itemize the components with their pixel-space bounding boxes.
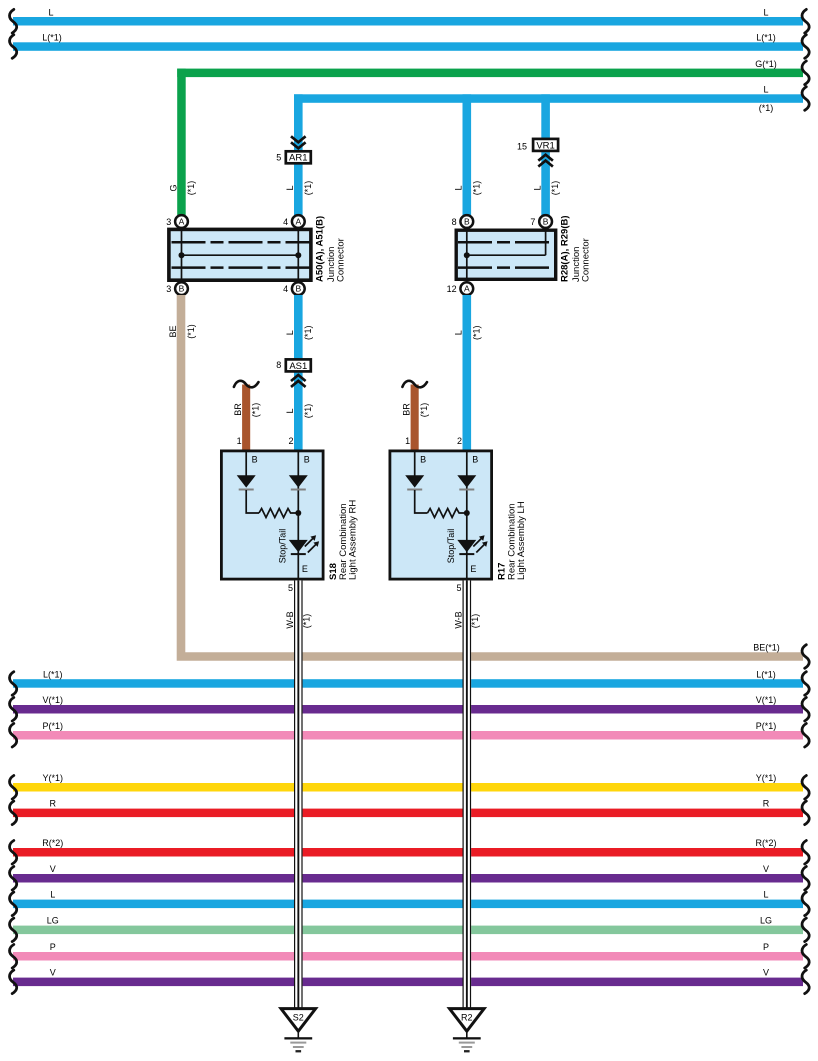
- svg-text:(*1): (*1): [303, 326, 313, 341]
- wire L (top bus): [10, 9, 810, 33]
- label B at pin 2 R17: [472, 454, 478, 464]
- label P(*1) left: [43, 721, 64, 731]
- junction dot R17: [464, 510, 470, 516]
- wire beige BE from A50 terminal B to right edge: [181, 295, 803, 657]
- name Connector (R28): [580, 238, 591, 282]
- svg-text:B: B: [472, 454, 478, 464]
- squiggle at BE right end: [802, 645, 809, 669]
- label (*1) below A50: [303, 326, 313, 341]
- label B at pin 1 R17: [420, 454, 426, 464]
- rear combination light body S18: [221, 451, 323, 579]
- label E S18: [302, 564, 308, 574]
- terminal A top-left of A50: [175, 215, 188, 228]
- svg-text:Stop/Tail: Stop/Tail: [278, 529, 288, 564]
- svg-text:Y(*1): Y(*1): [756, 773, 777, 783]
- label L left: [50, 890, 55, 900]
- svg-text:R2: R2: [461, 1013, 473, 1023]
- svg-text:A50(A), A51(B): A50(A), A51(B): [315, 216, 326, 282]
- label (*1) on blue vertical at AR1: [303, 181, 313, 196]
- svg-text:L: L: [532, 185, 542, 190]
- svg-text:(*1): (*1): [186, 324, 196, 339]
- label W-B at S18: [285, 611, 295, 628]
- pin 5 of AR1: [276, 153, 281, 163]
- pin 4 at terminal B: [283, 284, 288, 294]
- A50 internal dashed bus upper: [172, 241, 311, 244]
- svg-text:1: 1: [405, 436, 410, 446]
- pin 15 of VR1: [517, 141, 527, 151]
- svg-text:(*1): (*1): [303, 181, 313, 196]
- label P right: [763, 942, 769, 952]
- name Rear Combination: [338, 503, 349, 580]
- label (*1) on green vertical: [186, 181, 196, 196]
- svg-text:B: B: [304, 454, 310, 464]
- label Stop/Tail R17: [446, 529, 456, 564]
- svg-text:B: B: [179, 284, 185, 294]
- svg-text:4: 4: [283, 217, 288, 227]
- svg-text:(*1): (*1): [303, 404, 313, 419]
- diode at pin 2 S18: [289, 475, 308, 490]
- svg-text:L: L: [285, 408, 295, 413]
- pin 1 of R17: [405, 436, 410, 446]
- terminal A bottom-left of R28: [460, 282, 473, 295]
- A50 internal dashed bus lower: [172, 266, 311, 269]
- name Connector (A50): [336, 238, 347, 282]
- svg-text:(*1): (*1): [759, 103, 774, 113]
- label L right: [763, 890, 768, 900]
- label P(*1) right: [756, 721, 777, 731]
- label V(*1) right: [756, 695, 777, 705]
- svg-text:B: B: [295, 284, 301, 294]
- svg-text:A: A: [464, 284, 470, 294]
- svg-text:LG: LG: [760, 916, 772, 926]
- svg-text:Light Assembly LH: Light Assembly LH: [516, 501, 527, 580]
- svg-text:8: 8: [276, 360, 281, 370]
- svg-text:W-B: W-B: [285, 611, 295, 628]
- svg-text:S2: S2: [293, 1013, 304, 1023]
- svg-text:R28(A), R29(B): R28(A), R29(B): [560, 215, 571, 282]
- svg-text:5: 5: [288, 583, 293, 593]
- R28 internal link with junction dot: [464, 252, 546, 258]
- label BE on beige vertical: [168, 325, 178, 337]
- pin 1 of S18: [237, 436, 242, 446]
- label (*1) below R28: [471, 326, 481, 341]
- svg-text:L: L: [454, 330, 464, 335]
- label P left: [50, 942, 56, 952]
- svg-text:P(*1): P(*1): [756, 721, 777, 731]
- junction code AS1: [286, 359, 311, 371]
- svg-text:V(*1): V(*1): [756, 695, 777, 705]
- svg-text:B: B: [464, 217, 470, 227]
- svg-text:L: L: [454, 185, 464, 190]
- svg-text:L(*1): L(*1): [756, 33, 776, 43]
- internal line from pin 1 R17: [414, 451, 416, 476]
- internal line from pin 1 S18: [245, 451, 247, 476]
- svg-text:1: 1: [237, 436, 242, 446]
- label L on blue vertical at AR1: [285, 185, 295, 190]
- label (*1) at BR: [251, 403, 261, 418]
- svg-text:AR1: AR1: [289, 153, 307, 164]
- junction dot S18: [295, 510, 301, 516]
- junction connector A50/A51 body: [169, 229, 311, 280]
- svg-text:P: P: [50, 942, 56, 952]
- ground R2: [450, 1009, 485, 1053]
- svg-text:Y(*1): Y(*1): [43, 773, 64, 783]
- diode at pin 2 R17: [457, 475, 476, 490]
- junction connector R28/R29 body: [456, 230, 556, 279]
- pin 8 at terminal B: [452, 217, 457, 227]
- svg-text:LG: LG: [47, 916, 59, 926]
- label L(*1) left: [43, 669, 63, 679]
- wire blue vertical through AR1 to A50 terminal A: [294, 94, 303, 215]
- label Y(*1) right: [756, 773, 777, 783]
- internal line from pin 2 to pin 5 S18: [297, 451, 299, 579]
- label (*1) at R17 W-B: [470, 614, 480, 629]
- svg-text:(*1): (*1): [470, 614, 480, 629]
- wire P bus: [10, 945, 810, 969]
- terminal B top-right of R28: [539, 215, 552, 228]
- svg-text:BR: BR: [233, 403, 243, 416]
- svg-text:L(*1): L(*1): [756, 669, 776, 679]
- wire blue drop through VR1 to R28 terminal B7: [541, 94, 550, 215]
- svg-text:VR1: VR1: [536, 140, 554, 151]
- svg-text:L: L: [285, 330, 295, 335]
- wire blue from R28 terminal A to LH light pin 2: [463, 295, 472, 451]
- label (*1) below AS1: [303, 404, 313, 419]
- svg-text:5: 5: [456, 583, 461, 593]
- stop/tail LED S18: [289, 535, 319, 555]
- wire-break tilde on BR stub S18: [234, 381, 259, 388]
- label LG right: [760, 916, 772, 926]
- label (*1) right of fourth bus: [759, 103, 774, 113]
- label L(*1) left: [42, 33, 62, 43]
- svg-text:2: 2: [288, 436, 293, 446]
- svg-text:A: A: [295, 217, 301, 227]
- wire R(*2) bus: [10, 841, 810, 865]
- wire P(*1) bus: [10, 724, 810, 748]
- internal line below diode with resistor R17: [415, 490, 467, 518]
- label LG left: [47, 916, 59, 926]
- label V right: [763, 864, 769, 874]
- svg-text:B: B: [420, 454, 426, 464]
- label BR: [402, 403, 412, 416]
- svg-text:G: G: [168, 184, 178, 191]
- svg-text:L: L: [50, 890, 55, 900]
- label E R17: [470, 564, 476, 574]
- svg-text:L: L: [763, 7, 768, 17]
- label (*1) on drop to B7: [550, 181, 560, 196]
- wire V(*1) bus: [10, 698, 810, 722]
- svg-text:Connector: Connector: [580, 238, 591, 282]
- svg-text:Light Assembly RH: Light Assembly RH: [347, 500, 358, 580]
- wire L (*1) (fourth bus): [294, 87, 809, 111]
- svg-text:(*1): (*1): [471, 326, 481, 341]
- svg-text:V: V: [763, 864, 769, 874]
- label L(*1) right: [756, 669, 776, 679]
- label L on drop to B7: [532, 185, 542, 190]
- name Junction (A50): [326, 247, 337, 282]
- wire Y(*1) bus: [10, 776, 810, 800]
- label (*1) at BR: [419, 403, 429, 418]
- A50 internal column left: [181, 228, 183, 282]
- svg-text:L: L: [285, 185, 295, 190]
- pin 3 at terminal B: [166, 284, 171, 294]
- svg-text:A: A: [179, 217, 185, 227]
- rear combination light body R17: [390, 451, 492, 579]
- svg-text:L: L: [763, 85, 768, 95]
- terminal B bottom-left of A50: [175, 282, 188, 295]
- svg-text:(*1): (*1): [301, 614, 311, 629]
- svg-text:2: 2: [457, 436, 462, 446]
- wire blue from A50 terminal B through AS1 to RH light pin 2: [294, 295, 303, 451]
- svg-text:8: 8: [452, 217, 457, 227]
- label Y(*1) left: [43, 773, 64, 783]
- svg-text:P: P: [763, 942, 769, 952]
- svg-text:BE: BE: [168, 325, 178, 337]
- pin 3 at terminal A: [166, 217, 171, 227]
- pin 2 of S18: [288, 436, 293, 446]
- label R(*2) left: [42, 838, 63, 848]
- wire R bus: [10, 801, 810, 825]
- label G(*1) right: [755, 59, 777, 69]
- ground S2: [281, 1009, 316, 1053]
- wire V bus: [10, 867, 810, 891]
- label (*1) on drop to B8: [471, 181, 481, 196]
- connector arrows below VR1: [538, 155, 553, 167]
- svg-text:R: R: [50, 799, 57, 809]
- pin 12 at terminal A: [447, 284, 457, 294]
- A50 internal column right: [297, 228, 299, 282]
- name Rear Combination: [506, 503, 517, 580]
- name S18: [328, 563, 339, 580]
- label W-B at R17: [454, 611, 464, 628]
- label R right: [763, 799, 770, 809]
- pin 8 of AS1: [276, 360, 281, 370]
- svg-text:Stop/Tail: Stop/Tail: [446, 529, 456, 564]
- label B at pin 2 S18: [304, 454, 310, 464]
- pin 5 of S18: [288, 583, 293, 593]
- label G on green vertical: [168, 184, 178, 191]
- pin 4 at terminal A: [283, 217, 288, 227]
- svg-text:BE(*1): BE(*1): [753, 642, 780, 652]
- connector arrows below AS1: [291, 375, 306, 387]
- internal line from pin 2 to pin 5 R17: [466, 451, 468, 579]
- svg-text:3: 3: [166, 217, 171, 227]
- diode at pin 1 S18: [237, 475, 256, 490]
- svg-text:V: V: [50, 864, 56, 874]
- label (*1) on beige vertical: [186, 324, 196, 339]
- label V right: [763, 968, 769, 978]
- stop/tail LED R17: [457, 535, 487, 555]
- label B at pin 1 S18: [252, 454, 258, 464]
- wire L(*1) (second bus): [10, 35, 810, 59]
- svg-text:12: 12: [447, 284, 457, 294]
- R28 internal dashed bus upper: [458, 241, 555, 244]
- label L below A50: [285, 330, 295, 335]
- terminal A top-right of A50: [292, 215, 305, 228]
- svg-text:(*1): (*1): [550, 181, 560, 196]
- svg-text:L: L: [763, 890, 768, 900]
- diode at pin 1 R17: [405, 475, 424, 490]
- svg-text:(*1): (*1): [186, 181, 196, 196]
- terminal B bottom-right of A50: [292, 282, 305, 295]
- svg-text:G(*1): G(*1): [755, 59, 777, 69]
- svg-text:W-B: W-B: [454, 611, 464, 628]
- wire brown BR stub R17: [411, 385, 419, 452]
- wire L(*1) bus: [10, 672, 810, 696]
- label BE(*1) right: [753, 642, 780, 652]
- svg-text:L(*1): L(*1): [42, 33, 62, 43]
- terminal B top-left of R28: [460, 215, 473, 228]
- svg-text:R(*2): R(*2): [755, 838, 776, 848]
- svg-text:R: R: [763, 799, 770, 809]
- wire green vertical to A50 terminal A: [177, 69, 186, 216]
- svg-text:(*1): (*1): [251, 403, 261, 418]
- svg-text:E: E: [302, 564, 308, 574]
- svg-text:3: 3: [166, 284, 171, 294]
- svg-text:AS1: AS1: [289, 361, 307, 372]
- wire W-B from S18 pin 5 to ground S2: [294, 580, 303, 1008]
- label L right: [763, 7, 768, 17]
- svg-text:R(*2): R(*2): [42, 838, 63, 848]
- R28 internal column right upper: [545, 229, 547, 255]
- connector arrows above AR1: [291, 136, 306, 148]
- name A50(A), A51(B): [315, 216, 326, 282]
- name R28(A), R29(B): [560, 215, 571, 282]
- svg-text:5: 5: [276, 153, 281, 163]
- junction code VR1: [533, 139, 558, 151]
- label V left: [50, 864, 56, 874]
- wire L bus: [10, 892, 810, 916]
- svg-text:B: B: [252, 454, 258, 464]
- name Light Assembly RH: [347, 500, 358, 580]
- svg-text:V(*1): V(*1): [43, 695, 64, 705]
- svg-text:E: E: [470, 564, 476, 574]
- svg-text:L(*1): L(*1): [43, 669, 63, 679]
- name R17: [497, 563, 508, 580]
- svg-text:7: 7: [530, 217, 535, 227]
- svg-text:15: 15: [517, 141, 527, 151]
- svg-text:4: 4: [283, 284, 288, 294]
- wire G(*1) (green bus): [177, 61, 809, 85]
- name Junction (R28): [571, 247, 582, 282]
- label (*1) at S18 W-B: [301, 614, 311, 629]
- wire-break tilde on BR stub R17: [402, 381, 427, 388]
- R28 internal dashed bus lower: [458, 266, 555, 269]
- wire V bus: [10, 970, 810, 994]
- A50 internal link with junction dots: [179, 252, 302, 258]
- svg-text:L: L: [48, 7, 53, 17]
- internal line below diode with resistor S18: [246, 490, 298, 518]
- svg-text:B: B: [543, 217, 549, 227]
- svg-text:(*1): (*1): [419, 403, 429, 418]
- label R left: [50, 799, 57, 809]
- svg-text:V: V: [50, 968, 56, 978]
- label L below R28: [454, 330, 464, 335]
- R28 internal column left: [466, 229, 468, 281]
- svg-text:P(*1): P(*1): [43, 721, 64, 731]
- wire LG bus: [10, 918, 810, 942]
- label BR: [233, 403, 243, 416]
- svg-text:(*1): (*1): [471, 181, 481, 196]
- wire W-B from R17 pin 5 to ground R2: [463, 580, 472, 1008]
- label R(*2) right: [755, 838, 776, 848]
- label L left: [48, 7, 53, 17]
- svg-text:Connector: Connector: [336, 238, 347, 282]
- label V(*1) left: [43, 695, 64, 705]
- name Light Assembly LH: [516, 501, 527, 580]
- label L below AS1: [285, 408, 295, 413]
- junction code AR1: [286, 151, 311, 163]
- pin 2 of R17: [457, 436, 462, 446]
- label L on drop to B8: [454, 185, 464, 190]
- pin 5 of R17: [456, 583, 461, 593]
- label V left: [50, 968, 56, 978]
- svg-text:V: V: [763, 968, 769, 978]
- wire brown BR stub S18: [242, 385, 250, 452]
- svg-text:BR: BR: [402, 403, 412, 416]
- label L right of fourth bus: [763, 85, 768, 95]
- pin 7 at terminal B: [530, 217, 535, 227]
- label L(*1) right: [756, 33, 776, 43]
- label Stop/Tail S18: [278, 529, 288, 564]
- wire blue drop to R28 terminal B8: [463, 94, 472, 215]
